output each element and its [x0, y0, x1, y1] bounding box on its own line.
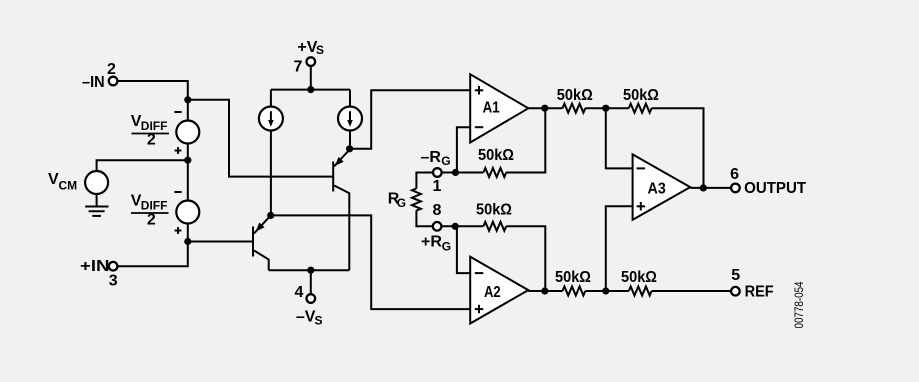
op-amp A2	[470, 257, 528, 324]
wire -IN terminal to node, then down to VDIFF column	[117, 81, 188, 100]
svg-text:3: 3	[109, 273, 118, 290]
svg-text:DIFF: DIFF	[141, 198, 168, 212]
svg-text:2: 2	[147, 132, 156, 149]
terminal -RG pin 1	[416, 173, 433, 189]
svg-text:5: 5	[731, 267, 740, 284]
node A3 output junction	[700, 184, 707, 191]
svg-text:2: 2	[147, 211, 156, 228]
wire A1 - input feedback	[457, 127, 470, 172]
node R5-R6 junction	[602, 287, 609, 294]
node A1 output	[541, 105, 548, 112]
svg-text:G: G	[441, 154, 450, 168]
svg-text:+V: +V	[297, 39, 317, 56]
node Q2 emitter junction	[346, 145, 353, 152]
svg-text:50kΩ: 50kΩ	[478, 147, 514, 164]
svg-text:50kΩ: 50kΩ	[621, 269, 657, 286]
svg-text:–IN: –IN	[82, 74, 105, 91]
wire A3 - input	[606, 108, 633, 168]
resistor R4 50k feedback A2	[483, 222, 506, 231]
op-amp A3	[633, 154, 691, 219]
wire A3 output	[690, 187, 731, 189]
svg-text:V: V	[48, 171, 59, 188]
svg-text:OUTPUT: OUTPUT	[744, 180, 806, 197]
svg-text:50kΩ: 50kΩ	[557, 87, 593, 104]
svg-text:2: 2	[107, 61, 116, 78]
wire -IN node right then down to Q2 base	[188, 100, 333, 177]
svg-text:A2: A2	[484, 284, 501, 301]
wire A2 feedback row	[441, 225, 483, 227]
svg-text:A1: A1	[483, 100, 500, 117]
wire Q1 emitter to A2 + input	[271, 215, 471, 309]
resistor R5 50k	[563, 287, 586, 296]
svg-text:A3: A3	[648, 181, 666, 198]
source VDIFF/2 upper	[187, 100, 189, 120]
wire A3 + input	[606, 206, 633, 291]
transistor Q2	[332, 162, 334, 192]
op-amp A1	[470, 74, 528, 142]
terminal +IN pin 3	[109, 262, 118, 271]
svg-text:G: G	[397, 196, 406, 210]
wire -VS rail	[269, 269, 350, 271]
terminal -IN pin 2	[109, 77, 118, 86]
svg-text:+R: +R	[421, 234, 442, 251]
node R1-R2 junction	[602, 105, 609, 112]
terminal +RG pin 8	[433, 222, 442, 231]
svg-text:CM: CM	[59, 179, 78, 193]
node +VS junction	[307, 86, 314, 93]
wire A1 output row	[528, 107, 562, 109]
wire junction to VCM source	[97, 160, 188, 170]
terminal REF pin 5	[731, 287, 740, 296]
ground	[96, 195, 98, 207]
svg-text:50kΩ: 50kΩ	[555, 269, 591, 286]
node pin1 junction	[452, 169, 459, 176]
svg-text:–V: –V	[296, 309, 316, 326]
svg-text:–R: –R	[421, 149, 442, 166]
svg-text:1: 1	[432, 178, 441, 195]
source VCM	[85, 171, 108, 194]
wire A1 feedback row	[441, 172, 483, 174]
wire A2 output row	[528, 290, 562, 292]
node VCM junction	[184, 157, 191, 164]
resistor R2 50k	[629, 104, 652, 113]
wire R2 to A3 output node	[652, 108, 704, 188]
svg-text:+IN: +IN	[80, 258, 110, 275]
wire A2 - input	[457, 226, 470, 273]
svg-text:S: S	[316, 43, 324, 57]
wire Q2 emitter to A1 + input	[350, 90, 471, 149]
resistor R6 50k	[629, 287, 652, 296]
wire R6 to REF terminal	[652, 290, 732, 292]
resistor R1 50k	[563, 104, 586, 113]
current source I1	[270, 90, 272, 106]
svg-text:G: G	[442, 239, 451, 253]
wire +IN terminal up to junction	[117, 242, 188, 267]
svg-text:50kΩ: 50kΩ	[623, 87, 659, 104]
wire Q1 base	[188, 241, 253, 243]
svg-text:REF: REF	[745, 284, 774, 301]
svg-text:6: 6	[730, 166, 739, 183]
transistor Q1	[252, 227, 254, 257]
node -VS junction	[307, 267, 314, 274]
resistor RG	[412, 189, 421, 211]
svg-text:7: 7	[293, 58, 302, 75]
node pin8 junction	[452, 223, 459, 230]
terminal +VS pin 7	[310, 66, 312, 90]
node -IN junction	[184, 96, 191, 103]
svg-text:8: 8	[432, 202, 441, 219]
svg-text:4: 4	[295, 284, 304, 301]
current source I2	[349, 90, 351, 106]
resistor R3 50k feedback A1	[483, 168, 506, 177]
svg-text:S: S	[315, 313, 323, 327]
node Q1 emitter junction	[267, 212, 274, 219]
svg-text:50kΩ: 50kΩ	[476, 202, 512, 219]
node +IN junction	[184, 238, 191, 245]
source VDIFF/2 lower	[187, 160, 189, 200]
node A2 output	[541, 287, 548, 294]
wire +VS rail	[271, 89, 350, 91]
terminal -VS pin 4	[310, 270, 312, 294]
svg-text:00778-054: 00778-054	[792, 281, 806, 328]
terminal OUTPUT pin 6	[731, 184, 740, 193]
